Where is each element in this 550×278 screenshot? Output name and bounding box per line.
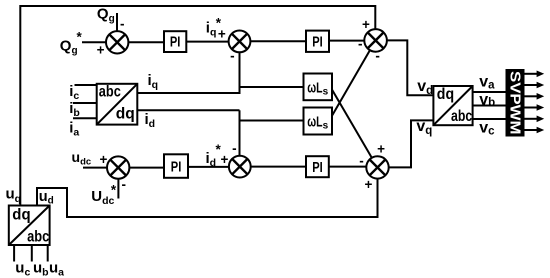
svg-text:PI: PI <box>312 160 323 176</box>
wire: u_b stub <box>31 245 33 262</box>
wire: S3 output to v_d input of dq-abc block <box>387 40 434 95</box>
wire: PI4 to S6 <box>329 166 366 168</box>
PI controller PI1 <box>164 31 186 52</box>
wire: tap to wLs2 <box>240 120 304 122</box>
wire: i_q output of abc-dq block <box>137 92 239 94</box>
wire: S1 to PI1 <box>128 41 164 43</box>
wire: i_d output of abc-dq block <box>137 109 239 111</box>
wire: i_q feedback vertical into S2 <box>239 52 241 94</box>
svg-text:+: + <box>100 152 108 167</box>
svg-text:-: - <box>122 177 127 192</box>
summing junction S6 (v_q composition) <box>366 156 388 178</box>
svg-text:+: + <box>218 27 226 42</box>
svg-text:Qg: Qg <box>97 6 115 25</box>
svg-text:iq: iq <box>148 72 159 91</box>
wire: i_d feedback vertical into S5 <box>239 110 241 155</box>
summing junction S2 (i_q error) <box>229 31 251 53</box>
svg-text:ua: ua <box>49 260 64 278</box>
svg-text:dq: dq <box>437 86 454 103</box>
wire: wLs1 output diagonal to S6 <box>332 90 372 158</box>
transform block dq-abc (output voltage) <box>433 86 472 125</box>
svg-text:-: - <box>375 48 380 63</box>
decoupling block wLs1 <box>304 74 333 101</box>
svg-text:ud: ud <box>39 189 54 207</box>
svg-text:+: + <box>377 142 385 157</box>
svg-text:vd: vd <box>417 78 433 97</box>
svg-text:abc: abc <box>99 83 121 100</box>
PI controller PI2 <box>306 31 329 52</box>
decoupling block wLs2 <box>304 108 333 135</box>
svg-text:dq: dq <box>116 106 135 123</box>
svg-text:-: - <box>359 153 364 168</box>
wire: i_a input <box>73 117 97 119</box>
svg-text:dq: dq <box>12 206 30 223</box>
wire: Qg measured input vertical <box>116 13 118 32</box>
svg-text:abc: abc <box>27 228 49 245</box>
wire: S5 to PI4 <box>251 166 306 168</box>
wire: Qg* input <box>82 41 106 43</box>
transform block dq-abc (grid voltage measurement) <box>9 206 50 246</box>
svg-text:PI: PI <box>312 34 323 50</box>
svg-text:*: * <box>111 183 117 198</box>
svg-text:*: * <box>77 30 83 45</box>
wire: u_dc input <box>83 167 107 169</box>
svg-text:-: - <box>230 49 235 64</box>
wire: S6 output to v_q input of dq-abc block <box>389 120 434 167</box>
svg-text:id: id <box>145 111 156 130</box>
wire: i_c input <box>75 84 97 86</box>
wire: S2 to PI2 <box>250 40 306 42</box>
svg-text:udc: udc <box>72 149 92 168</box>
wire: i_b input <box>73 102 97 104</box>
SVPWM modulator block <box>506 69 525 137</box>
wire: u_q feedback path (left vertical, top horizontal, down into summing junction S3) <box>20 6 375 206</box>
svg-text:abc: abc <box>451 108 472 125</box>
svg-text:Qg: Qg <box>60 38 78 57</box>
summing junction S3 (v_d composition) <box>364 29 387 52</box>
svg-text:vc: vc <box>479 120 495 138</box>
wire: u_a stub <box>47 245 49 262</box>
summing junction S1 (reactive power error) <box>106 31 128 53</box>
wire: PI2 to S3 <box>329 40 364 42</box>
wire: PI3 to S5 <box>188 166 229 168</box>
wire: v_b to SVPWM <box>473 105 506 107</box>
svg-text:-: - <box>358 37 363 52</box>
wire: wLs2 output diagonal to S3 <box>332 50 370 116</box>
wire: v_c to SVPWM <box>473 118 506 120</box>
PI controller PI4 <box>306 156 329 177</box>
svg-text:PI: PI <box>171 159 182 175</box>
transform block abc-dq (current measurement) <box>97 83 138 124</box>
svg-text:uq: uq <box>6 185 22 205</box>
svg-text:ia: ia <box>69 120 79 139</box>
wire: u_d path from bottom dq-abc block <box>37 188 67 218</box>
svg-text:PI: PI <box>170 35 181 51</box>
svg-text:-: - <box>232 141 237 156</box>
svg-text:+: + <box>220 152 228 167</box>
summing junction S5 (i_d error) <box>229 156 251 178</box>
svg-text:-: - <box>120 17 125 32</box>
svg-text:+: + <box>362 17 370 32</box>
svg-text:iq: iq <box>206 20 217 39</box>
svg-text:+: + <box>97 43 105 58</box>
svg-text:ub: ub <box>33 260 49 278</box>
gate pulse arrowheads <box>537 71 545 134</box>
wire: PI1 to S2 <box>186 41 228 43</box>
svg-text:uc: uc <box>15 260 30 278</box>
svg-text:id: id <box>206 150 217 169</box>
wire: u_d feedback from S6 bottom <box>67 179 378 217</box>
summing junction S4 (dc voltage error) <box>107 156 129 178</box>
wire: u_c stub <box>13 245 15 262</box>
svg-text:SVPWM: SVPWM <box>507 71 524 135</box>
svg-text:va: va <box>479 73 495 91</box>
wire: U_dc* reference stub <box>117 179 119 199</box>
svg-text:+: + <box>365 177 373 192</box>
wire: v_a to SVPWM <box>473 91 506 93</box>
wire: tap to wLs1 <box>240 86 304 88</box>
wire: S4 to PI3 <box>129 167 164 169</box>
svg-text:vb: vb <box>479 91 495 109</box>
PI controller PI3 <box>164 154 188 178</box>
gate pulse arrows out of SVPWM <box>525 74 539 130</box>
